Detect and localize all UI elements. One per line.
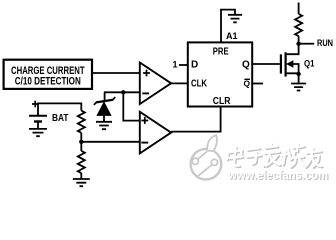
Q1 body arrow — [287, 61, 293, 67]
wire R3 to node — [298, 36, 300, 44]
svg-text:A1: A1 — [226, 31, 238, 41]
wire CLR to U2 output — [171, 107, 220, 132]
svg-text:C/10 DETECTION: C/10 DETECTION — [15, 76, 81, 88]
wire zener node to U1A - input — [104, 91, 139, 93]
charge current detection box — [4, 60, 92, 89]
ground under zener — [96, 122, 112, 129]
ground under battery — [29, 129, 47, 136]
ground under Q1 — [291, 84, 306, 91]
svg-text:CLK: CLK — [191, 78, 208, 89]
U1A - sign — [142, 92, 149, 94]
U1A + sign — [143, 70, 150, 77]
wire U1A output to CLK — [171, 82, 188, 84]
wire R1 to node — [80, 133, 82, 142]
U2 + sign — [141, 117, 148, 124]
op-amp U2 — [140, 112, 171, 154]
Q1 channel bar — [285, 52, 287, 76]
Q1 source stub — [287, 73, 299, 82]
zener diode D1 — [94, 97, 115, 105]
zener cathode bar — [94, 97, 115, 105]
wire R2 to ground — [80, 173, 82, 179]
wire node to Q1 drain — [287, 44, 299, 55]
battery long plate — [29, 115, 47, 117]
junction dot divider node — [79, 140, 83, 144]
flip-flop A1 box — [188, 42, 252, 106]
wire box to U1A + input — [92, 72, 139, 74]
watermark logo pads — [192, 158, 198, 164]
ground above PRE — [228, 15, 242, 22]
battery stub to ground — [37, 123, 39, 129]
battery short plate — [34, 120, 42, 122]
wire R3 top lead — [298, 3, 300, 14]
svg-text:www.elecfans.com: www.elecfans.com — [227, 170, 328, 182]
wire D input stub — [179, 64, 188, 66]
Q1 body stub — [293, 64, 299, 74]
wire node down to U2 + input — [123, 92, 139, 120]
U2 - sign — [141, 142, 148, 144]
svg-text:Q: Q — [243, 79, 250, 89]
ground under R2 — [73, 179, 90, 186]
Qbar overline — [244, 78, 250, 80]
junction dot RUN node — [296, 42, 300, 46]
svg-text:CLR: CLR — [213, 96, 231, 107]
svg-text:Q1: Q1 — [304, 58, 315, 69]
svg-text:RUN: RUN — [317, 38, 333, 48]
svg-text:Q: Q — [242, 60, 250, 71]
wire node to R2 — [80, 142, 82, 151]
Q1 gate bar — [280, 54, 282, 73]
svg-text:BAT: BAT — [52, 113, 69, 124]
watermark logo circle — [191, 135, 222, 179]
wire zener anode to ground — [103, 115, 105, 121]
wire Qbar stub — [252, 83, 263, 85]
wire zener top drop — [104, 92, 106, 101]
wire battery top to R1 — [38, 103, 81, 115]
resistor R2 — [78, 151, 85, 173]
mosfet Q1 — [281, 52, 286, 76]
all schematic strokes — [38, 3, 314, 187]
svg-text:1: 1 — [172, 59, 177, 69]
svg-text:D: D — [191, 60, 198, 71]
junction dot Q1 source node — [296, 72, 300, 76]
junction dot zener node — [121, 90, 125, 94]
resistor R3 — [295, 14, 302, 36]
zener anode triangle — [97, 102, 111, 115]
wire PRE to ground — [221, 10, 235, 43]
wire Q to Q1 gate — [252, 63, 280, 65]
watermark logo tail — [207, 135, 217, 151]
op-amp U1A — [140, 63, 171, 105]
resistor R1 — [78, 111, 85, 133]
wire node to RUN — [299, 43, 315, 45]
watermark logo traces — [197, 152, 212, 177]
svg-text:PRE: PRE — [213, 47, 229, 58]
battery + label — [32, 101, 38, 107]
wire divider node to U2 - input — [81, 141, 139, 143]
